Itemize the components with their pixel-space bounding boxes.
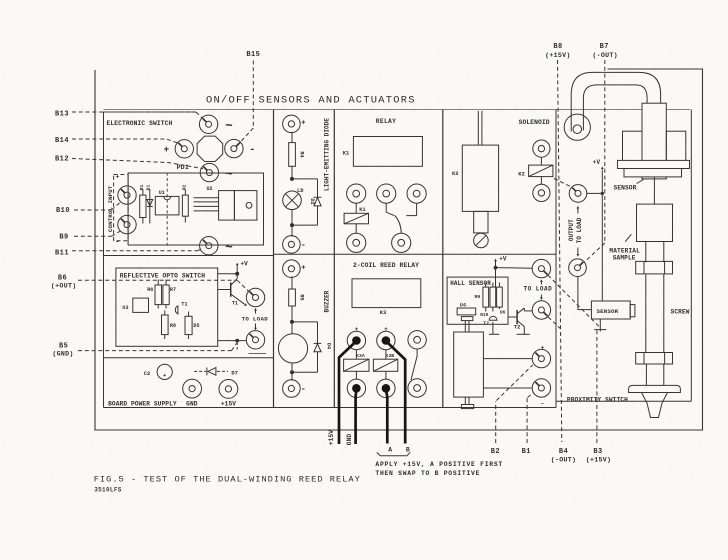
note APPLY +15V	[375, 461, 503, 468]
wire	[291, 276, 293, 289]
svg-text:B11: B11	[55, 250, 69, 258]
jack J2 load plus	[175, 140, 193, 158]
wire dashed hall gnd to B4 line	[548, 317, 560, 329]
solenoid K2 plunger rod	[478, 111, 482, 145]
relay coil K3A	[344, 350, 369, 379]
wire dashed leader B6	[78, 280, 249, 291]
panel title SOLENOID	[519, 119, 550, 126]
resistor R4	[289, 143, 305, 167]
svg-text:GND: GND	[346, 434, 353, 446]
wire	[291, 225, 293, 237]
terminal label B2	[491, 448, 500, 456]
svg-text:B6: B6	[58, 274, 67, 282]
svg-text:-: -	[541, 400, 545, 407]
jack solenoid coil bottom	[533, 184, 550, 201]
resistor R10	[480, 283, 495, 319]
screw shaft upper	[646, 242, 664, 263]
svg-text:(+15V): (+15V)	[586, 457, 612, 464]
panels bottom edge	[104, 407, 557, 409]
sensor cylinder body	[642, 103, 666, 179]
svg-text:R1: R1	[139, 185, 145, 191]
wire label A	[388, 446, 392, 453]
svg-text:B15: B15	[246, 51, 260, 59]
panel title REFLECTIVE OPTO SWITCH	[120, 272, 205, 279]
svg-text:BUZZER: BUZZER	[323, 290, 330, 312]
relay coil K3B	[373, 350, 397, 379]
+V supply output	[593, 159, 604, 301]
AC mark bottom	[225, 241, 233, 255]
resistor R6	[147, 280, 161, 309]
svg-text:THEN SWAP TO B POSITIVE: THEN SWAP TO B POSITIVE	[375, 470, 480, 477]
column 1 power-supply panel top edge	[104, 357, 274, 359]
node output junction	[587, 192, 604, 195]
svg-text:-: -	[301, 240, 306, 250]
svg-text:R8: R8	[170, 323, 176, 329]
svg-text:K3B: K3B	[385, 353, 394, 359]
svg-text:APPLY +15V, A POSITIVE FIRST: APPLY +15V, A POSITIVE FIRST	[375, 461, 503, 468]
svg-text:K1: K1	[359, 207, 365, 213]
jack reed contact top	[408, 331, 426, 349]
ground stub in hall box	[489, 322, 499, 334]
svg-text:(GND): (GND)	[52, 351, 73, 358]
resistor R8	[162, 311, 177, 340]
svg-text:REFLECTIVE OPTO SWITCH: REFLECTIVE OPTO SWITCH	[120, 272, 205, 279]
svg-text:HALL SENSOR: HALL SENSOR	[450, 280, 491, 287]
node opto gnd	[218, 339, 247, 352]
solenoid K2 body	[452, 145, 499, 211]
buzzer BZ	[278, 334, 307, 363]
panel title 2-COIL REED RELAY	[353, 262, 419, 269]
terminal label B13	[55, 111, 69, 119]
wire dashed leader B5	[78, 343, 237, 350]
label MATERIAL SAMPLE	[609, 234, 640, 261]
wire label +15V	[328, 430, 335, 445]
node buzzer bottom junction	[290, 370, 294, 374]
washer upper	[636, 261, 673, 274]
svg-text:+15V: +15V	[328, 430, 335, 445]
jack reed contact bottom	[408, 379, 426, 397]
jack reed out minus	[532, 379, 550, 397]
wire dashed leader B13	[72, 112, 202, 118]
svg-text:TO LOAD: TO LOAD	[242, 315, 269, 322]
jack hall gnd	[532, 301, 550, 319]
svg-text:+V: +V	[593, 159, 601, 166]
svg-text:K3A: K3A	[356, 353, 365, 359]
wire	[540, 177, 542, 185]
circuit dashed centerline	[166, 173, 168, 246]
panel title BOARD POWER SUPPLY	[108, 400, 177, 407]
label +15V	[221, 400, 236, 407]
svg-text:T2: T2	[483, 320, 489, 326]
svg-text:SENSOR: SENSOR	[597, 308, 619, 315]
reflective opto switch box	[116, 268, 218, 346]
svg-text:-: -	[115, 239, 120, 247]
tube inner outline	[583, 85, 647, 127]
arrow hall to-load	[540, 280, 543, 301]
panel divider between column 3 and 4	[442, 110, 444, 408]
minus mark control input	[115, 239, 120, 247]
wire dashed leader B11	[72, 248, 203, 251]
gnd tick under jack	[249, 353, 267, 355]
cylinder lower stem	[461, 397, 473, 409]
shaft upper	[653, 177, 655, 204]
relay K1 body	[343, 137, 423, 167]
terminal label B5 (GND)	[52, 343, 73, 358]
node LED top junction	[290, 177, 294, 181]
svg-text:B8: B8	[553, 43, 562, 51]
jack J8 opto out	[246, 288, 264, 306]
svg-text:R10: R10	[480, 313, 488, 318]
plus mark control input	[116, 174, 120, 181]
lamp LD	[283, 191, 302, 210]
svg-text:D5: D5	[193, 323, 199, 329]
screw shaft lower	[646, 364, 663, 385]
svg-text:FIG.5 - TEST OF THE DUAL-WINDI: FIG.5 - TEST OF THE DUAL-WINDING REED RE…	[94, 475, 361, 485]
label TO LOAD vertical	[576, 217, 583, 243]
wire	[291, 132, 293, 143]
+V supply hall	[494, 256, 533, 288]
terminal label B4 (-OUT)	[551, 448, 577, 464]
panel title ELECTRONIC SWITCH	[107, 120, 173, 127]
wire	[540, 157, 542, 165]
svg-text:+: +	[116, 174, 120, 181]
wire dashed vertical B8 to B4	[558, 60, 562, 442]
svg-text:U1: U1	[159, 190, 165, 196]
panel divider between column 2 and 3	[333, 110, 335, 408]
wire thick +15V	[339, 341, 356, 444]
diode D5	[185, 312, 200, 340]
node +V junction	[218, 272, 240, 276]
label SENSOR top	[614, 180, 644, 192]
jack coil A bottom (plugged)	[347, 379, 365, 397]
wire thick GND	[354, 389, 357, 444]
jack relay com	[377, 184, 396, 203]
jack buzzer plus	[283, 260, 306, 278]
wire dashed hall out to sensor gnd	[548, 275, 600, 327]
svg-text:R6: R6	[147, 287, 153, 293]
capacitor C2	[144, 364, 173, 379]
jack solenoid coil top	[533, 140, 550, 157]
svg-text:+15V: +15V	[221, 400, 236, 407]
terminal label B3 (+15V)	[586, 448, 612, 464]
resistor R9	[475, 283, 489, 312]
label LD	[297, 188, 304, 194]
terminal label B6 (+OUT)	[51, 274, 77, 289]
columns 2-4 separator upper/lower panels	[274, 253, 557, 255]
terminal label B1	[522, 448, 531, 456]
svg-text:~: ~	[225, 120, 233, 134]
jack J1 load AC top	[199, 115, 217, 133]
jack LED minus	[283, 236, 306, 254]
label OUTPUT	[568, 219, 575, 241]
svg-text:OUTPUT: OUTPUT	[568, 219, 575, 241]
solenoid coil K2 symbol	[518, 165, 553, 178]
svg-text:D4: D4	[325, 343, 331, 349]
switch contact open	[406, 203, 416, 215]
svg-text:(+OUT): (+OUT)	[51, 283, 77, 290]
svg-text:T1: T1	[232, 300, 238, 306]
terminal label B14	[55, 137, 69, 145]
wire dashed leader B1	[527, 393, 534, 443]
svg-text:B3: B3	[593, 448, 602, 456]
jack J7 bottom AC	[200, 237, 218, 255]
svg-text:CONTROL INPUT: CONTROL INPUT	[107, 185, 114, 232]
svg-text:R4: R4	[299, 151, 305, 157]
hall sensor box	[447, 277, 508, 324]
svg-text:+: +	[301, 120, 305, 128]
svg-text:~: ~	[225, 168, 233, 182]
plus mark reed out	[541, 344, 545, 351]
wire dashed leader B10	[74, 202, 120, 210]
screw shaft main	[646, 275, 664, 353]
jack relay switched	[392, 233, 411, 252]
svg-text:D6: D6	[500, 310, 506, 315]
svg-text:U3: U3	[122, 305, 128, 311]
svg-text:B14: B14	[55, 137, 69, 145]
terminal label B15	[246, 51, 260, 59]
svg-text:T1: T1	[181, 301, 187, 307]
solenoid K2 lower step	[474, 211, 488, 233]
terminal label B7 (-OUT)	[592, 43, 618, 59]
diode D1	[146, 185, 153, 224]
brace under A B	[377, 452, 411, 456]
wire dashed leader B12	[72, 159, 203, 169]
svg-text:TO LOAD: TO LOAD	[576, 217, 583, 243]
tube outer outline	[571, 72, 660, 127]
svg-text:B5: B5	[59, 343, 68, 351]
wire dashed leader B7	[585, 60, 605, 262]
jack GND	[183, 379, 202, 398]
node LED bottom junction	[290, 223, 294, 227]
+V supply opto	[236, 261, 248, 274]
svg-text:K1: K1	[343, 150, 350, 156]
svg-text:ELECTRONIC SWITCH: ELECTRONIC SWITCH	[107, 120, 173, 127]
svg-text:~: ~	[225, 241, 233, 255]
panel divider between column 1 and 2	[273, 110, 275, 408]
wire	[355, 224, 357, 233]
svg-text:+: +	[301, 264, 305, 272]
switch contact common	[386, 203, 394, 215]
wire jack B to sensor box	[578, 277, 592, 310]
wire label GND	[346, 434, 353, 446]
resistor R1	[139, 185, 146, 224]
relay coil K1	[344, 207, 368, 224]
wire	[483, 387, 532, 389]
svg-text:-: -	[249, 144, 255, 156]
svg-text:T2: T2	[514, 324, 521, 330]
svg-text:R5: R5	[299, 294, 305, 300]
wire dashed leader B3	[596, 330, 598, 443]
svg-text:+V: +V	[241, 261, 249, 268]
svg-text:D1: D1	[146, 185, 152, 191]
svg-text:C2: C2	[144, 371, 151, 377]
svg-text:B1: B1	[522, 448, 531, 456]
jack J5 control plus	[118, 186, 136, 204]
wire	[291, 210, 293, 226]
svg-text:SENSOR: SENSOR	[614, 184, 637, 191]
arrow to load lower	[254, 324, 257, 331]
svg-text:ON/OFF: ON/OFF	[206, 95, 251, 107]
svg-text:SAMPLE: SAMPLE	[613, 255, 636, 262]
panel divider column 4 right edge	[555, 110, 557, 408]
svg-text:(+15V): (+15V)	[545, 52, 571, 59]
wire thick B	[386, 341, 405, 444]
reed switch blade	[411, 349, 417, 380]
svg-text:GND: GND	[186, 400, 198, 407]
label K3A	[356, 353, 365, 359]
svg-text:PROXIMITY SWITCH: PROXIMITY SWITCH	[567, 396, 628, 403]
hall transistor T2 dome	[483, 316, 497, 326]
resistor R7	[163, 280, 176, 309]
svg-text:B12: B12	[55, 156, 69, 164]
svg-text:K3: K3	[380, 310, 387, 316]
svg-text:+: +	[164, 144, 170, 155]
wire	[291, 166, 293, 179]
board inner top edge	[104, 109, 691, 111]
svg-text:B9: B9	[59, 234, 68, 242]
plus mark load input	[164, 144, 170, 155]
electronic switch panel dashed top edge	[104, 111, 197, 113]
svg-text:3510LFS: 3510LFS	[94, 487, 122, 494]
resistor R2	[181, 185, 188, 223]
sensor coil block left	[623, 131, 643, 165]
svg-text:D2: D2	[309, 198, 315, 204]
svg-text:B10: B10	[56, 207, 70, 215]
jack J4 PD1 AC	[200, 163, 218, 181]
wire	[483, 358, 532, 360]
arrow down to load jack	[577, 248, 580, 257]
jack relay no	[407, 184, 426, 203]
wire	[355, 203, 357, 213]
jack J9 opto gnd	[246, 331, 264, 349]
material sample block	[637, 204, 673, 241]
note THEN SWAP	[375, 470, 480, 477]
jack relay coil bottom	[347, 233, 366, 252]
svg-text:SENSORS AND ACTUATORS: SENSORS AND ACTUATORS	[259, 95, 416, 107]
svg-text:R9: R9	[475, 294, 481, 300]
terminal label B10	[56, 207, 70, 215]
svg-text:B: B	[406, 446, 410, 453]
right assembly bottom edge	[556, 400, 691, 402]
wire dashed leader B9	[74, 231, 120, 236]
svg-text:K2: K2	[518, 172, 525, 178]
terminal label B9	[59, 234, 68, 242]
wire dashed coil to output jack	[554, 179, 571, 187]
label LIGHT-EMITTING DIODE	[323, 118, 330, 191]
sensor coil block right	[666, 131, 686, 165]
jack J3 load minus	[225, 139, 243, 157]
diode D6	[497, 283, 506, 316]
terminal label B12	[55, 156, 69, 164]
jack output plus	[569, 185, 587, 203]
document number 3510LFS	[94, 487, 122, 494]
label TO LOAD opto	[242, 315, 269, 322]
jack reed out plus	[532, 349, 550, 367]
title ON/OFF SENSORS AND ACTUATORS	[206, 95, 416, 107]
lamp load octagon	[197, 136, 223, 161]
svg-text:2-COIL REED RELAY: 2-COIL REED RELAY	[353, 262, 419, 269]
transistor T2	[508, 308, 532, 334]
terminal label B8 (+15V)	[545, 43, 571, 59]
svg-text:B4: B4	[559, 448, 568, 456]
label BUZZER	[323, 290, 330, 312]
node buzzer top junction	[290, 320, 294, 324]
switch blade	[395, 216, 402, 234]
svg-text:R7: R7	[170, 287, 176, 293]
svg-text:PD1: PD1	[177, 164, 189, 171]
washer lower	[636, 353, 673, 365]
svg-text:LIGHT-EMITTING DIODE: LIGHT-EMITTING DIODE	[323, 118, 330, 191]
jack coil B bottom (plugged)	[377, 379, 395, 397]
svg-text:SOLENOID: SOLENOID	[519, 119, 550, 126]
proximity sensor box	[591, 301, 635, 319]
tube end donut	[564, 114, 590, 140]
jack output return	[569, 259, 587, 277]
screw tip	[642, 393, 668, 418]
minus mark load input	[249, 144, 255, 156]
svg-text:SCREW: SCREW	[671, 308, 690, 315]
jack coil A top (plugged)	[347, 331, 365, 349]
label SCREW	[671, 308, 690, 315]
diode D2 branch	[292, 179, 321, 225]
chip U4	[457, 303, 476, 315]
screw head cap	[629, 385, 681, 392]
wire dashed leader B14	[72, 139, 178, 143]
arrow up to output jack	[577, 206, 580, 214]
resistor R5	[289, 289, 305, 306]
jack buzzer minus	[283, 380, 306, 398]
pedestal under U4	[461, 317, 473, 332]
figure caption	[94, 475, 361, 485]
jack J6 control minus	[118, 215, 136, 233]
transistor U2 package	[194, 186, 257, 220]
svg-text:A: A	[388, 446, 392, 453]
wire dashed leader B2	[496, 365, 533, 443]
nut below flange	[624, 169, 682, 177]
label K3B	[385, 353, 394, 359]
wire label B	[406, 446, 410, 453]
control input dashed box	[114, 175, 129, 241]
terminal label B11	[55, 250, 69, 258]
svg-text:RELAY: RELAY	[376, 118, 396, 125]
solenoid K2 end cap	[474, 233, 489, 248]
svg-text:B13: B13	[55, 111, 69, 119]
svg-text:(-OUT): (-OUT)	[551, 457, 577, 464]
reed relay K3 body	[352, 279, 421, 316]
ground stub under sensor	[594, 319, 606, 332]
svg-text:B2: B2	[491, 448, 500, 456]
transistor T1	[218, 274, 247, 307]
label GND	[186, 400, 198, 407]
panel title PROXIMITY SWITCH	[567, 396, 628, 403]
wire	[291, 363, 293, 381]
label TO LOAD hall	[524, 286, 553, 293]
AC mark top	[225, 120, 233, 134]
label PD1	[177, 164, 189, 171]
jack coil B top (plugged)	[377, 331, 395, 349]
wire	[291, 306, 293, 334]
phototransistor T1 dome	[175, 301, 187, 314]
panel title RELAY	[376, 118, 396, 125]
column 1 separator electronic-switch / opto	[104, 255, 274, 257]
svg-text:(-OUT): (-OUT)	[592, 52, 618, 59]
svg-text:MATERIAL: MATERIAL	[609, 247, 640, 254]
svg-text:R2: R2	[181, 185, 187, 191]
diode D7	[194, 368, 238, 377]
chip U3	[122, 298, 148, 312]
arrow to load upper	[254, 308, 257, 314]
magnet cylinder	[454, 332, 484, 397]
